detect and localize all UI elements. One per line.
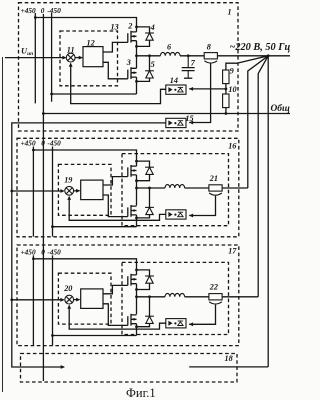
junction upper drain cell 17 xyxy=(135,269,138,272)
svg-text:20: 20 xyxy=(63,284,72,293)
wire inductor to sensor 22 xyxy=(185,296,209,298)
svg-text:16: 16 xyxy=(228,141,237,150)
wire +450 rail cell 16 xyxy=(33,150,136,166)
svg-text:15: 15 xyxy=(185,114,193,123)
wire sensor 22 secondary xyxy=(189,305,215,325)
wire upper gate cell 16 xyxy=(103,177,128,185)
resistor 9 xyxy=(223,70,229,84)
junction lower diode cell 17 xyxy=(135,325,138,328)
wire midpoint to inductor 6 xyxy=(137,55,161,57)
svg-text:8: 8 xyxy=(207,43,211,52)
junction capacitor 7 tap xyxy=(187,54,190,57)
svg-text:2: 2 xyxy=(127,22,132,31)
svg-text:12: 12 xyxy=(87,38,95,47)
svg-text:~220 В, 50 Гц: ~220 В, 50 Гц xyxy=(230,42,291,53)
junction output node xyxy=(267,54,270,57)
svg-text:0: 0 xyxy=(41,248,45,257)
arrow into control 12 xyxy=(79,56,83,60)
wire +450 bus ch1 xyxy=(34,13,36,103)
svg-text:-450: -450 xyxy=(47,248,61,257)
wire summer to control 12 xyxy=(75,57,82,59)
upper diode of cell 17 xyxy=(145,276,154,283)
wire source return to -450 xyxy=(52,93,137,95)
svg-text:11: 11 xyxy=(67,46,75,55)
junction -450 return xyxy=(50,93,53,96)
junction lower diode top cell 17 xyxy=(148,295,151,298)
junction -450 return cell 16 xyxy=(51,225,54,228)
wire output to cell 17 link xyxy=(258,56,268,297)
voltage sensor 14 xyxy=(166,85,186,94)
svg-text:22: 22 xyxy=(209,283,218,292)
wire upper gate cell 17 xyxy=(103,285,128,293)
arrow feedback into summer 19 xyxy=(67,196,71,200)
wire midpoint to diode 5 xyxy=(149,56,151,71)
svg-text:1: 1 xyxy=(228,8,232,17)
wire summer to control cell 17 xyxy=(74,299,80,301)
upper transistor of cell 16 xyxy=(128,165,137,177)
junction +450 bus ch1 xyxy=(34,16,37,19)
wire lower gate cell 17 xyxy=(103,304,128,326)
summing junction 19 xyxy=(65,186,74,195)
junction upper diode cell 16 xyxy=(135,179,138,182)
arrow into sensor 15 xyxy=(189,121,193,125)
inverter cell box 16 xyxy=(17,138,239,237)
arrow into summer 11 xyxy=(62,56,66,60)
control unit box 13 xyxy=(60,31,118,86)
wire sensor 8 to output node xyxy=(217,55,268,57)
lower transistor of cell 16 xyxy=(128,205,137,217)
svg-text:10: 10 xyxy=(228,85,236,94)
wire +450 bus cell 17 xyxy=(32,255,34,345)
control block cell 17 xyxy=(81,289,103,309)
current sensor 15 xyxy=(166,118,186,127)
load box 18 xyxy=(21,354,238,383)
wire lower source down cell 16 xyxy=(136,215,138,227)
wire lower source down cell 17 xyxy=(136,324,138,336)
wire upper diode bottom cell 17 xyxy=(137,283,150,289)
wire bridge mid cell 17 xyxy=(136,284,138,315)
svg-text:-450: -450 xyxy=(47,6,61,15)
svg-text:6: 6 xyxy=(167,43,172,52)
wire R10 to common xyxy=(225,108,227,114)
svg-text:21: 21 xyxy=(209,174,218,183)
junction diode 5 bottom xyxy=(135,80,138,83)
arrow into summer 20 xyxy=(60,298,64,302)
inductor 6 xyxy=(160,52,180,55)
wire +450 rail cell 17 xyxy=(33,259,136,275)
power module box of cell 16 xyxy=(122,154,229,226)
wire diode 4 to midpoint xyxy=(137,40,150,46)
wire sensor 8 secondary to sensor 15 xyxy=(189,63,210,122)
capacitor 7 xyxy=(182,56,195,78)
junction common on 0 bus xyxy=(42,112,45,115)
wire source return cell 16 xyxy=(53,226,137,228)
arrow current reference into load box xyxy=(61,365,65,369)
svg-text:+450: +450 xyxy=(21,6,36,15)
wire reference input cell 16 xyxy=(12,190,64,192)
wire gate VT3 xyxy=(104,62,128,79)
wire current feedback to summer 19 xyxy=(69,199,166,220)
svg-text:0: 0 xyxy=(41,139,45,148)
upper diode of cell 16 xyxy=(145,167,154,174)
svg-text:0: 0 xyxy=(41,6,45,15)
upper transistor of cell 17 xyxy=(128,274,137,286)
current sensor 8 xyxy=(204,53,217,63)
svg-text:19: 19 xyxy=(64,175,72,184)
filter inductor of cell 16 xyxy=(165,185,185,188)
svg-text:Uип: Uип xyxy=(21,47,33,58)
arrow into control block cell 16 xyxy=(76,189,80,193)
svg-text:Фиг.1: Фиг.1 xyxy=(126,386,156,400)
wire current reference to slave cells xyxy=(12,123,166,367)
arrow feedback into summer 11 xyxy=(69,63,73,67)
wire diode 5 to VT3 source xyxy=(137,78,150,81)
wire gate VT2 xyxy=(104,42,128,52)
inverter cell box 17 xyxy=(17,245,239,346)
junction lower diode cell 16 xyxy=(135,217,138,220)
wire Uип input xyxy=(5,57,66,59)
svg-text:Общ: Общ xyxy=(271,103,290,114)
wire output to cell 16 link xyxy=(248,56,268,188)
wire +450 bus cell 16 xyxy=(32,147,34,237)
wire VT2 source to VT3 drain xyxy=(136,41,138,69)
wire midpoint to inductor cell 16 xyxy=(137,187,166,189)
svg-text:13: 13 xyxy=(111,23,119,32)
wire lower gate cell 16 xyxy=(103,195,128,217)
control unit box of cell 17 xyxy=(58,273,111,324)
svg-text:9: 9 xyxy=(230,67,234,76)
svg-text:+450: +450 xyxy=(21,139,36,148)
wire to upper diode cell 16 xyxy=(137,161,150,167)
svg-text:5: 5 xyxy=(151,60,155,69)
wire inductor to sensor 21 xyxy=(185,187,209,189)
wire to diode 4 anode top xyxy=(137,27,150,33)
junction VT2 drain xyxy=(135,26,138,29)
wire sensor 21 secondary xyxy=(189,196,215,216)
wire inductor to sensor 8 xyxy=(180,55,204,57)
svg-text:+450: +450 xyxy=(21,248,36,257)
wire output to divider R9 xyxy=(226,56,268,70)
wire to upper diode cell 17 xyxy=(137,270,150,276)
wire output right xyxy=(268,55,290,57)
junction lower diode top cell 16 xyxy=(148,187,151,190)
wire upper diode bottom cell 16 xyxy=(137,174,150,180)
wire -450 bus cell 17 xyxy=(52,255,54,345)
junction diode 4 bottom xyxy=(135,45,138,48)
svg-text:3: 3 xyxy=(126,58,131,67)
arrow into control block cell 17 xyxy=(76,298,80,302)
wire midpoint to inductor cell 17 xyxy=(137,296,166,298)
feedback sensor of cell 16 xyxy=(166,210,186,219)
inverter cell box 1 xyxy=(19,3,239,131)
summing junction 11 xyxy=(66,53,75,62)
junction diode 5 top xyxy=(148,54,151,57)
wire -450 bus cell 16 xyxy=(52,147,54,237)
svg-text:17: 17 xyxy=(228,247,237,256)
transistor 3 xyxy=(128,67,137,79)
wire current feedback to summer 20 xyxy=(69,308,166,329)
wire cell 17 output link xyxy=(222,296,258,298)
wire common xyxy=(43,113,290,115)
wire voltage feedback to summer 11 xyxy=(71,66,166,104)
wire to lower diode cell 17 xyxy=(149,297,151,316)
filter inductor of cell 17 xyxy=(165,293,185,296)
wire summer to control cell 16 xyxy=(74,190,80,192)
lower diode of cell 16 xyxy=(145,207,154,214)
wire source return cell 17 xyxy=(53,335,137,337)
diode 4 xyxy=(145,33,154,40)
junction upper diode cell 17 xyxy=(135,288,138,291)
lower diode of cell 17 xyxy=(145,316,154,323)
junction midpoint cell 16 xyxy=(135,187,138,190)
arrow into sensor 14 xyxy=(189,87,193,91)
junction bridge midpoint xyxy=(135,54,138,57)
arrow into feedback sensor cell 17 xyxy=(189,322,193,326)
svg-text:4: 4 xyxy=(150,23,155,32)
wire divider to sensor 14 xyxy=(189,88,226,90)
diode 5 xyxy=(145,71,154,78)
junction upper drain cell 16 xyxy=(135,160,138,163)
junction R10 common xyxy=(225,112,228,115)
wire +450 rail to VT2 drain xyxy=(35,18,136,32)
page edge line xyxy=(2,57,4,392)
wire to lower diode cell 16 xyxy=(149,188,151,207)
svg-text:14: 14 xyxy=(170,76,178,85)
svg-text:-450: -450 xyxy=(47,139,61,148)
wire lower diode bottom cell 16 xyxy=(137,215,150,218)
junction midpoint cell 17 xyxy=(135,295,138,298)
arrow into summer 19 xyxy=(60,189,64,193)
junction -450 return cell 17 xyxy=(51,334,54,337)
control block 12 xyxy=(83,47,103,67)
control unit box of cell 16 xyxy=(58,164,111,215)
wire output down to load xyxy=(267,56,269,367)
wire reference input cell 17 xyxy=(12,299,64,301)
lower transistor of cell 17 xyxy=(128,314,137,326)
arrow into feedback sensor cell 16 xyxy=(189,214,193,218)
current sensor 21 xyxy=(209,185,222,195)
svg-text:18: 18 xyxy=(225,354,233,363)
transistor 2 xyxy=(128,31,137,43)
control block cell 16 xyxy=(81,180,103,200)
feedback sensor of cell 17 xyxy=(166,319,186,328)
wire R9 to R10 xyxy=(225,84,227,94)
resistor 10 xyxy=(223,94,229,108)
current sensor 22 xyxy=(209,294,222,304)
junction divider midpoint xyxy=(225,88,228,91)
arrow feedback into summer 20 xyxy=(67,305,71,309)
wire lower diode bottom cell 17 xyxy=(137,323,150,326)
wire 0 bus xyxy=(42,14,44,381)
wire bridge mid cell 16 xyxy=(136,175,138,206)
junction reference tap cell 17 xyxy=(10,298,13,301)
power module box of cell 17 xyxy=(122,262,229,334)
wire cell 16 output link xyxy=(222,187,248,189)
summing junction 20 xyxy=(65,295,74,304)
junction +450 bus cell 17 xyxy=(32,257,35,260)
junction reference tap cell 16 xyxy=(10,190,13,193)
wire -450 bus ch1 xyxy=(51,13,53,102)
wire VT3 source down xyxy=(136,77,138,94)
svg-text:7: 7 xyxy=(191,58,196,67)
wire output into load box xyxy=(189,366,268,368)
junction +450 bus cell 16 xyxy=(32,149,35,152)
